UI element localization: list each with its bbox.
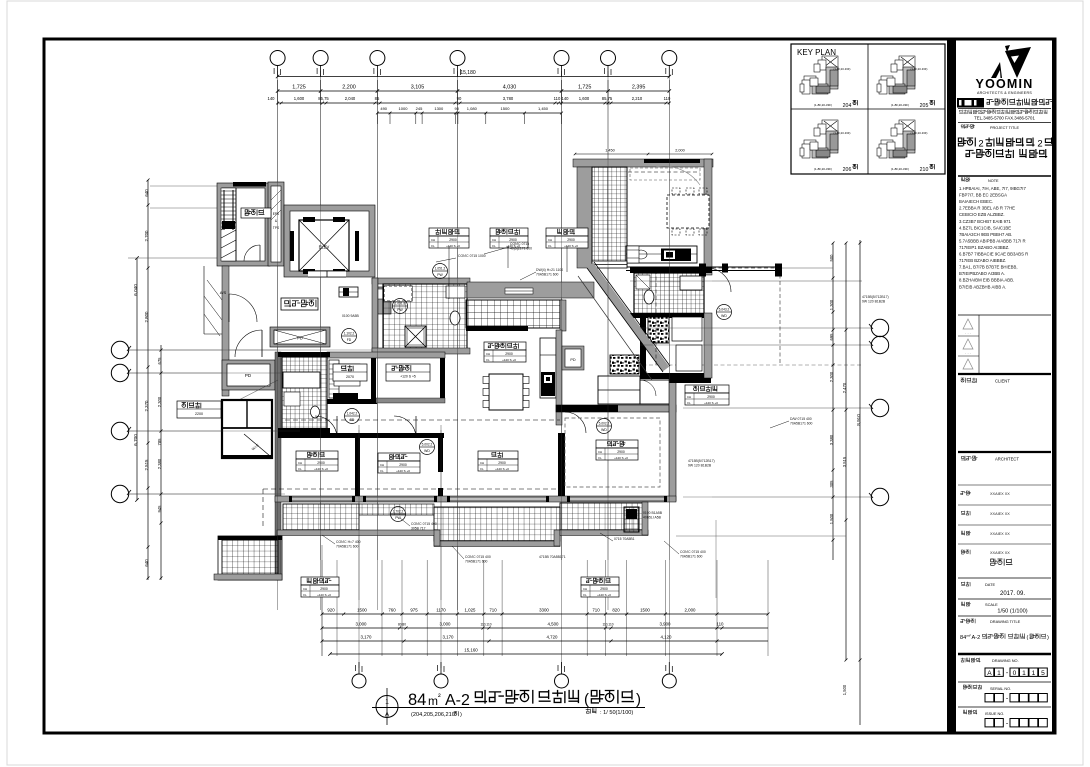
svg-text:2900: 2900 <box>449 238 457 242</box>
svg-text:3,105: 3,105 <box>411 85 425 91</box>
svg-text:717IEB BZABO AIBBBZ.: 717IEB BZABO AIBBBZ. <box>959 258 1006 263</box>
svg-text:204: 204 <box>843 103 852 109</box>
svg-text:FL: FL <box>486 358 490 362</box>
right dimension chains <box>832 243 834 560</box>
svg-text:CLIENT: CLIENT <box>995 379 1010 384</box>
svg-text:A-2: A-2 <box>972 635 981 641</box>
svg-text:710: 710 <box>592 608 600 613</box>
svg-text:CON'C 0715 400: CON'C 0715 400 <box>680 550 706 554</box>
svg-text:CON'C 0715: CON'C 0715 <box>510 242 529 246</box>
svg-text:0: 0 <box>1013 670 1017 677</box>
svg-text:CH: CH <box>380 463 384 467</box>
svg-text:(1-8F,20-33F): (1-8F,20-33F) <box>891 167 909 171</box>
svg-text:1,600: 1,600 <box>294 96 305 101</box>
svg-text:3,380: 3,380 <box>829 434 834 445</box>
svg-text:CON'C 0715 400: CON'C 0715 400 <box>465 555 491 559</box>
svg-text:2,515: 2,515 <box>144 459 149 471</box>
svg-text:4,120: 4,120 <box>661 635 673 640</box>
svg-text:717IEIP1 BZABO AI3BBZ.: 717IEIP1 BZABO AI3BBZ. <box>959 245 1009 250</box>
svg-text:D/W 0715 400: D/W 0715 400 <box>790 417 812 421</box>
svg-text:6,040: 6,040 <box>133 284 138 296</box>
right grid bubbles <box>871 319 888 336</box>
bathroom 2 (tiled) <box>630 267 712 273</box>
svg-text:15,180: 15,180 <box>460 70 476 76</box>
svg-text:85,75: 85,75 <box>318 96 329 101</box>
svg-text:140: 140 <box>562 96 570 101</box>
svg-text:XXAIEX XX: XXAIEX XX <box>990 551 1010 555</box>
key plan <box>791 44 945 174</box>
svg-text:PROJECT TITLE: PROJECT TITLE <box>990 126 1019 130</box>
svg-text:2,040: 2,040 <box>345 96 356 101</box>
svg-text:1170: 1170 <box>436 608 446 613</box>
svg-text:2,000: 2,000 <box>675 149 685 153</box>
south balconies (tiled) <box>283 504 359 530</box>
svg-text:90: 90 <box>454 106 459 111</box>
svg-text:XXAIEX XX: XXAIEX XX <box>990 512 1010 516</box>
svg-text:15,160: 15,160 <box>464 648 478 653</box>
svg-text:5.7A5BBB ABIPBB AIABBB 717I R: 5.7A5BBB ABIPBB AIABBB 717I R <box>959 238 1026 243</box>
svg-text:1,500: 1,500 <box>842 684 847 695</box>
svg-text:110: 110 <box>664 96 671 101</box>
svg-text:9W 120 B1B2B: 9W 120 B1B2B <box>688 464 712 468</box>
svg-text:A: A <box>987 670 992 677</box>
svg-text:B7IEIB ABZBHB AIBB A.: B7IEIB ABZBHB AIBB A. <box>959 284 1006 289</box>
svg-text:SERIAL NO.: SERIAL NO. <box>990 687 1011 691</box>
svg-text:ISSUE NO.: ISSUE NO. <box>985 712 1004 716</box>
svg-text:2,300: 2,300 <box>157 396 162 407</box>
svg-text:2900: 2900 <box>617 450 625 454</box>
svg-text:CON'C H=7 400: CON'C H=7 400 <box>336 540 361 544</box>
svg-text:2900: 2900 <box>505 352 513 356</box>
svg-text:640: 640 <box>144 559 149 567</box>
bedrooms 2 and 3 <box>278 433 360 438</box>
svg-text:1,725: 1,725 <box>292 85 306 91</box>
svg-text:2,700: 2,700 <box>144 230 149 242</box>
svg-text:FL: FL <box>298 467 302 471</box>
svg-text:5,043.2: 5,043.2 <box>719 308 730 312</box>
svg-text:1.HPBAIAI, 7IH, ABE, 7I7, 9IBG: 1.HPBAIAI, 7IH, ABE, 7I7, 9IBG7I7 <box>959 186 1026 191</box>
svg-text:+120 S +0: +120 S +0 <box>446 244 460 248</box>
bottom grid bubbles <box>352 674 366 688</box>
svg-text:1: 1 <box>1032 670 1036 677</box>
svg-text:NOTE: NOTE <box>988 179 999 183</box>
svg-text:1: 1 <box>1022 670 1026 677</box>
bottom dimension chains <box>321 560 323 656</box>
svg-text:+120 S +0: +120 S +0 <box>704 401 718 405</box>
svg-text:FL: FL <box>431 244 435 248</box>
svg-text:1500: 1500 <box>640 608 650 613</box>
svg-text:+120 S +0: +120 S +0 <box>597 593 611 597</box>
entry hall and pantry <box>327 352 445 358</box>
svg-text:945: 945 <box>157 505 162 513</box>
svg-text:2900: 2900 <box>320 587 328 591</box>
svg-text:ELEV: ELEV <box>319 245 330 250</box>
svg-text:(1-8F,20-33F): (1-8F,20-33F) <box>834 67 851 71</box>
svg-text:CEBICIO EZB ALZBBZ.: CEBICIO EZB ALZBBZ. <box>959 212 1005 217</box>
svg-text:2,300: 2,300 <box>829 371 834 382</box>
svg-text:7BAIA3CH 9EB PBBH7 AB.: 7BAIA3CH 9EB PBBH7 AB. <box>959 232 1012 237</box>
svg-text:CH: CH <box>492 238 496 242</box>
neighbour unit rooms <box>222 400 272 458</box>
svg-text:3,900: 3,900 <box>660 622 672 627</box>
svg-text:2070: 2070 <box>346 375 354 379</box>
svg-text:2900: 2900 <box>567 238 575 242</box>
bedroom 1 <box>556 405 676 412</box>
grid lines <box>277 71 279 610</box>
svg-text:1,042.2: 1,042.2 <box>347 412 358 416</box>
svg-text:675: 675 <box>157 357 162 365</box>
svg-text:1,725: 1,725 <box>578 85 592 91</box>
svg-text:CON'C 0715 400: CON'C 0715 400 <box>411 522 437 526</box>
svg-text:2,800: 2,800 <box>144 311 149 323</box>
svg-text:2,470: 2,470 <box>842 382 847 393</box>
svg-text:140: 140 <box>268 96 276 101</box>
svg-text:40B5LI A5B: 40B5LI A5B <box>643 516 662 520</box>
svg-text:CH: CH <box>480 461 484 465</box>
svg-text:2,000: 2,000 <box>685 608 697 613</box>
stair room (gyedansil) <box>217 183 270 266</box>
svg-text:4,720: 4,720 <box>547 635 559 640</box>
svg-text:WD: WD <box>601 428 607 432</box>
svg-text:0715 70A5B1: 0715 70A5B1 <box>614 537 635 541</box>
svg-text:DW(4) H=21 1100: DW(4) H=21 1100 <box>536 268 563 272</box>
title block <box>947 39 956 733</box>
svg-text:(1-8F,20-33F): (1-8F,20-33F) <box>834 131 851 135</box>
svg-text:WD: WD <box>721 314 727 318</box>
svg-text:70A5B171 600: 70A5B171 600 <box>536 273 559 277</box>
svg-text:1000: 1000 <box>399 106 409 111</box>
neighbour unit bathroom <box>275 352 281 580</box>
svg-text:FL: FL <box>687 401 691 405</box>
svg-text:BAIAIECH EBEC.: BAIAIECH EBEC. <box>959 199 993 204</box>
svg-text:2900: 2900 <box>317 461 325 465</box>
svg-text:(: ( <box>584 691 589 708</box>
svg-text:3,170: 3,170 <box>361 635 373 640</box>
svg-text:4.BZ7L BIC1CIB, SAIC1BE: 4.BZ7L BIC1CIB, SAIC1BE <box>959 225 1011 230</box>
svg-text:KEY PLAN: KEY PLAN <box>797 48 836 57</box>
svg-text:(: ( <box>1027 635 1029 641</box>
svg-text:A/S: A/S <box>220 290 227 295</box>
svg-text:640: 640 <box>144 189 149 197</box>
svg-text:4,500: 4,500 <box>548 622 560 627</box>
svg-text:(1-8F,20-33F): (1-8F,20-33F) <box>891 103 909 107</box>
svg-text:PD: PD <box>297 336 303 341</box>
svg-text:FL: FL <box>583 593 587 597</box>
svg-text:5,002.2: 5,002.2 <box>422 443 433 447</box>
svg-text:4715B(5/712B17): 4715B(5/712B17) <box>688 459 715 463</box>
svg-text:305: 305 <box>829 480 834 488</box>
svg-text:2,210: 2,210 <box>632 96 643 101</box>
kitchen wing and balcony 3 <box>573 159 713 167</box>
svg-text:SD: SD <box>350 418 355 422</box>
svg-text:CH: CH <box>548 238 552 242</box>
svg-text:FL: FL <box>380 469 384 473</box>
svg-text:1,500: 1,500 <box>829 513 834 524</box>
svg-text:2900: 2900 <box>399 463 407 467</box>
svg-text:(1-8F,20-33F): (1-8F,20-33F) <box>814 167 832 171</box>
svg-text:1: 1 <box>997 670 1001 677</box>
svg-text:1: 1 <box>385 699 389 706</box>
bathroom 1 (tiled) <box>372 278 470 284</box>
svg-text:FL: FL <box>548 244 552 248</box>
room label boxes <box>429 228 469 236</box>
svg-text:110: 110 <box>717 622 725 627</box>
svg-text:PD: PD <box>570 358 576 362</box>
svg-text:110: 110 <box>554 96 561 101</box>
svg-text:ARCHITECTS & ENGINEERS: ARCHITECTS & ENGINEERS <box>977 91 1032 95</box>
svg-text:2,370: 2,370 <box>144 400 149 412</box>
svg-text:(1-8F,20-33F): (1-8F,20-33F) <box>814 103 832 107</box>
svg-text:2017. 09.: 2017. 09. <box>1000 591 1025 597</box>
svg-text:): ) <box>460 712 462 718</box>
svg-text:975: 975 <box>410 608 418 613</box>
svg-text:206: 206 <box>843 167 852 173</box>
svg-text:TPS: TPS <box>273 226 279 230</box>
svg-text:6,700: 6,700 <box>133 434 138 446</box>
dressing room / closets <box>648 317 669 343</box>
svg-text:80,80: 80,80 <box>398 623 406 627</box>
svg-text:CON'C 0715 1000: CON'C 0715 1000 <box>458 254 486 258</box>
svg-text:245: 245 <box>416 106 423 111</box>
svg-text:110,110: 110,110 <box>480 623 491 627</box>
svg-text:XXAIEX XX: XXAIEX XX <box>990 532 1010 536</box>
svg-text:A: A <box>385 712 390 719</box>
svg-text:CH: CH <box>298 461 302 465</box>
svg-text:70A5B171 600: 70A5B171 600 <box>336 545 359 549</box>
svg-text:+120 S +0: +120 S +0 <box>314 467 328 471</box>
top dimension chains <box>278 76 670 78</box>
svg-text:+120 S +0: +120 S +0 <box>317 593 331 597</box>
svg-text:2: 2 <box>1037 139 1042 150</box>
svg-text:A-2: A-2 <box>445 692 470 709</box>
svg-text:1,702.2: 1,702.2 <box>393 510 404 514</box>
svg-text:1,051.2: 1,051.2 <box>435 267 446 271</box>
svg-text:DATE: DATE <box>985 582 995 587</box>
svg-text:1/50 (1/100): 1/50 (1/100) <box>997 609 1027 615</box>
svg-text:FL: FL <box>492 244 496 248</box>
svg-text:XXAIEX XX: XXAIEX XX <box>990 492 1010 496</box>
svg-text:SCALE: SCALE <box>985 602 998 607</box>
svg-text:84: 84 <box>408 691 426 709</box>
svg-text:FBP7I7, BB EC 2EBSGA: FBP7I7, BB EC 2EBSGA <box>959 193 1007 198</box>
svg-text:PW: PW <box>395 516 401 520</box>
svg-text:8.BZHAIBM EIB BBBIA ABB.: 8.BZHAIBM EIB BBBIA ABB. <box>959 278 1014 283</box>
svg-text:205: 205 <box>920 103 929 109</box>
svg-text:ARCHITECT: ARCHITECT <box>995 457 1019 462</box>
svg-text:+120 S +0: +120 S +0 <box>564 244 578 248</box>
svg-text:3,170: 3,170 <box>443 635 455 640</box>
svg-text:YOOMIN: YOOMIN <box>976 77 1034 91</box>
svg-text:710: 710 <box>489 608 497 613</box>
svg-text:1500: 1500 <box>357 608 367 613</box>
svg-text:920: 920 <box>327 608 335 613</box>
svg-text:+120 S +0: +120 S +0 <box>396 469 410 473</box>
svg-text:1,300: 1,300 <box>829 299 834 310</box>
svg-text:FL: FL <box>598 456 602 460</box>
svg-text:: 1/ 50(1/100): : 1/ 50(1/100) <box>600 710 633 716</box>
svg-text:CH: CH <box>687 395 691 399</box>
svg-text:+120 S +0: +120 S +0 <box>614 456 628 460</box>
drawing title at bottom <box>376 696 398 718</box>
svg-text:1500: 1500 <box>501 106 511 111</box>
svg-text:2,200: 2,200 <box>342 85 356 91</box>
svg-text:70A5B171 600: 70A5B171 600 <box>465 560 488 564</box>
left dimension chains <box>147 180 149 580</box>
svg-text:490: 490 <box>380 106 387 111</box>
svg-text:CH: CH <box>583 587 587 591</box>
svg-text:84: 84 <box>960 635 966 641</box>
svg-text:9W 120 B1B2B: 9W 120 B1B2B <box>862 300 886 304</box>
svg-text:1,600: 1,600 <box>579 96 590 101</box>
svg-text:TEL.3485-5700 FAX.3486-5701: TEL.3485-5700 FAX.3486-5701 <box>974 116 1035 121</box>
svg-text:. . .: . . . <box>965 330 971 335</box>
diagonal wall <box>590 265 666 369</box>
svg-text:1,031.8: 1,031.8 <box>395 302 406 306</box>
svg-text:8,910: 8,910 <box>856 414 861 426</box>
svg-text:305B 717: 305B 717 <box>411 527 426 531</box>
svg-text:1,102.2: 1,102.2 <box>344 332 355 336</box>
svg-text:40)5(2171 600: 40)5(2171 600 <box>510 247 532 251</box>
top grid bubbles <box>270 51 285 66</box>
svg-text:70A5B171 600: 70A5B171 600 <box>790 422 813 426</box>
svg-text:5: 5 <box>1041 670 1045 677</box>
elevator shaft <box>284 205 375 277</box>
svg-text:DRAWING TITLE: DRAWING TITLE <box>990 619 1021 624</box>
svg-text:70A5B171 600: 70A5B171 600 <box>680 555 703 559</box>
svg-text:2.7EBBA R 3BEL AB R 77HE: 2.7EBBA R 3BEL AB R 77HE <box>959 206 1015 211</box>
svg-text:2,380: 2,380 <box>157 458 162 469</box>
svg-text:1,450: 1,450 <box>605 149 615 153</box>
svg-text:3300: 3300 <box>539 608 549 613</box>
svg-text:1,080: 1,080 <box>467 106 478 111</box>
svg-text:2,395: 2,395 <box>632 85 646 91</box>
svg-text:3,000: 3,000 <box>356 622 368 627</box>
svg-text:3,515: 3,515 <box>842 456 847 467</box>
svg-text:+120 S +0: +120 S +0 <box>495 467 509 471</box>
svg-text:CH: CH <box>598 450 602 454</box>
svg-text:): ) <box>1047 635 1049 641</box>
svg-text:FL: FL <box>480 467 484 471</box>
svg-text:CH: CH <box>303 587 307 591</box>
svg-text:3,000: 3,000 <box>440 622 452 627</box>
svg-text:. . .: . . . <box>965 350 971 355</box>
svg-text:2200: 2200 <box>195 412 203 416</box>
svg-text:785: 785 <box>157 438 162 446</box>
svg-text:3.CZ3B7 BCHB7 EAIB 971: 3.CZ3B7 BCHB7 EAIB 971 <box>959 219 1011 224</box>
svg-text:B7IEIPBZABO AI3BB A.: B7IEIPBZABO AI3BB A. <box>959 271 1005 276</box>
svg-text:PW: PW <box>397 308 403 312</box>
svg-text:695: 695 <box>829 333 834 341</box>
svg-text:4715B(5/712B17): 4715B(5/712B17) <box>862 295 889 299</box>
svg-text:PW: PW <box>437 273 443 277</box>
svg-text:FL: FL <box>303 593 307 597</box>
svg-text:CH: CH <box>431 238 435 242</box>
svg-text:WD: WD <box>424 449 430 453</box>
svg-text:1300: 1300 <box>434 106 444 111</box>
svg-text:2900: 2900 <box>600 587 608 591</box>
svg-text:1,025: 1,025 <box>465 608 477 613</box>
svg-text:85,75: 85,75 <box>602 96 613 101</box>
svg-text:(204,205,206,210: (204,205,206,210 <box>411 712 455 718</box>
svg-text:1,450: 1,450 <box>538 106 549 111</box>
svg-text:²: ² <box>438 692 441 701</box>
svg-text:CH: CH <box>486 352 490 356</box>
svg-text:210: 210 <box>920 167 929 173</box>
svg-text:EPS: EPS <box>273 212 279 216</box>
svg-text:2900: 2900 <box>707 395 715 399</box>
svg-text:4,030: 4,030 <box>503 85 517 91</box>
svg-text:0100 B1A5B: 0100 B1A5B <box>643 511 663 515</box>
svg-text:500: 500 <box>829 254 834 262</box>
svg-text:(1-8F,20-33F): (1-8F,20-33F) <box>911 67 928 71</box>
svg-text:DRAWING NO.: DRAWING NO. <box>992 658 1019 663</box>
svg-text:2900: 2900 <box>498 461 506 465</box>
left grid bubbles <box>111 341 128 358</box>
svg-text:PD: PD <box>245 373 252 378</box>
svg-text:3,780: 3,780 <box>503 96 514 101</box>
svg-text:7.BA1, B7I7B B7B7E BHIEBB,: 7.BA1, B7I7B B7B7E BHIEBB, <box>959 265 1018 270</box>
svg-text:6.B7B7 7IBBACIE 9CAE BB3ABS R: 6.B7B7 7IBBACIE 9CAE BB3ABS R <box>959 252 1028 257</box>
svg-text:(1-8F,20-33F): (1-8F,20-33F) <box>911 131 928 135</box>
svg-text:760: 760 <box>388 608 396 613</box>
svg-text:0100 9A5B: 0100 9A5B <box>342 314 360 318</box>
svg-text:+120 S +5: +120 S +5 <box>400 375 416 379</box>
svg-text:110,110: 110,110 <box>602 623 613 627</box>
svg-text:m: m <box>428 694 438 708</box>
svg-text:): ) <box>636 691 641 708</box>
svg-text:+120 S +0: +120 S +0 <box>502 358 516 362</box>
svg-text:FD: FD <box>347 338 352 342</box>
svg-text:820: 820 <box>612 608 620 613</box>
svg-text:2: 2 <box>978 139 983 150</box>
